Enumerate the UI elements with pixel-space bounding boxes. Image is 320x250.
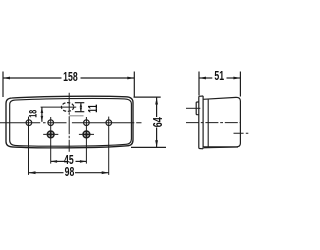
svg-text:18: 18 bbox=[27, 110, 40, 118]
svg-text:51: 51 bbox=[214, 70, 224, 84]
svg-text:158: 158 bbox=[63, 71, 78, 85]
svg-text:64: 64 bbox=[152, 117, 166, 127]
svg-text:98: 98 bbox=[65, 166, 75, 180]
svg-text:11: 11 bbox=[86, 104, 100, 112]
